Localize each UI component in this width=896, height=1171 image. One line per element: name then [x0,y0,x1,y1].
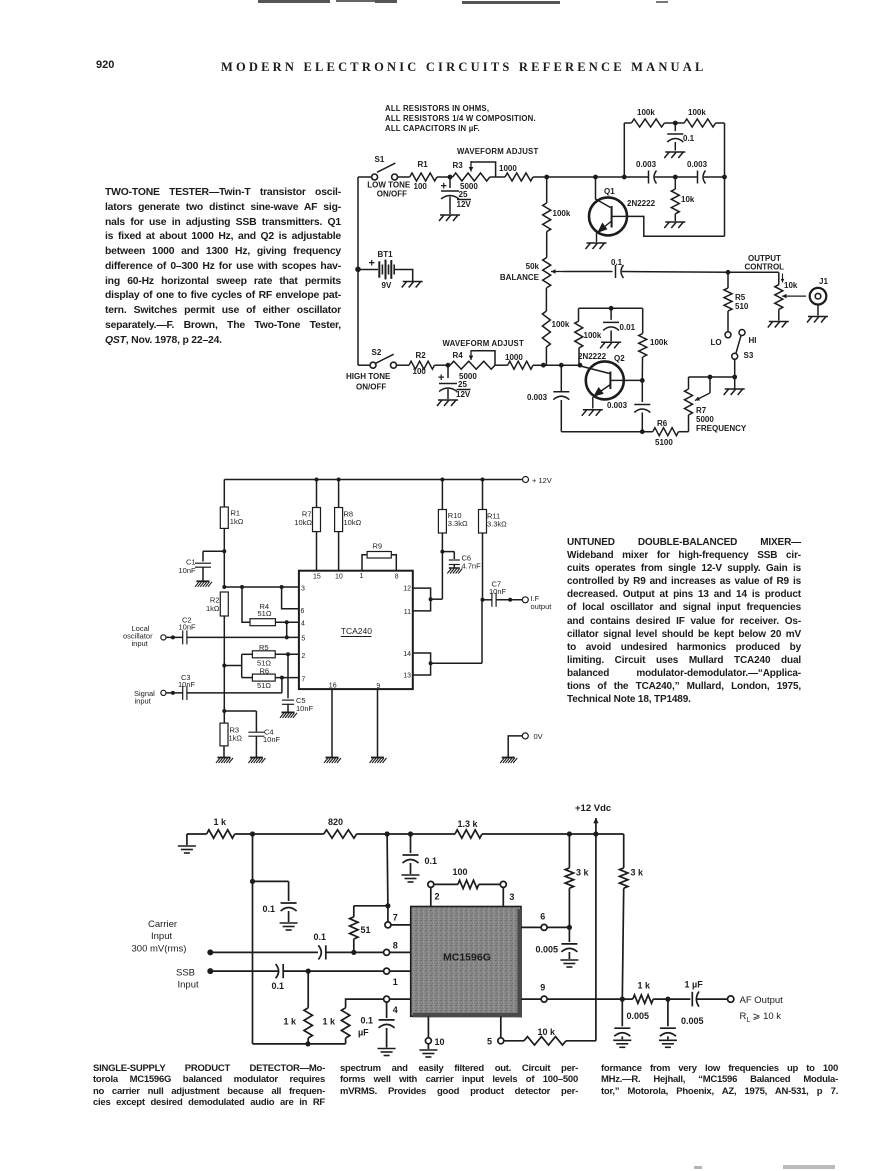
svg-text:0.1: 0.1 [611,258,623,267]
potentiometer R4 5000 WAVEFORM ADJUST [443,339,524,381]
svg-text:25: 25 [458,380,467,389]
node supply/decouple [250,831,255,836]
wire balance wiper to output bus [563,271,613,273]
resistor 1.3 k [455,819,482,838]
caption column 1: single-supply product detector [93,1063,325,1108]
potentiometer R7 5000 FREQUENCY [685,377,747,433]
resistor R4 51ohm [250,602,275,626]
svg-text:R5: R5 [735,293,746,302]
svg-text:100k: 100k [553,209,571,218]
svg-text:10k: 10k [784,281,798,290]
running head title [221,60,713,75]
ground below pin16 [324,758,341,764]
svg-text:11: 11 [404,609,411,616]
ground below 0V [500,758,517,764]
svg-text:0.1: 0.1 [272,981,285,991]
svg-text:4: 4 [301,620,305,627]
svg-text:R2: R2 [416,351,427,360]
capacitor 0.003 (twin-T left series) [636,160,657,184]
svg-text:820: 820 [328,817,343,827]
node Q2 bias junction [541,363,546,368]
svg-text:8: 8 [393,940,398,950]
node R5R6 branch [222,664,226,668]
svg-text:2N2222: 2N2222 [578,352,607,361]
node C7 junction [481,598,485,602]
transistor Q1 2N2222 [589,187,656,242]
wire long left bus [252,881,254,1044]
svg-text:10: 10 [435,1037,445,1047]
node twin-T top middle [664,121,684,126]
svg-text:+: + [369,258,375,270]
svg-text:14: 14 [403,651,411,658]
wire Q2 base [578,363,610,374]
wire R5R6 branch [224,654,252,677]
wire R4 to 1000 resistor [495,364,508,366]
svg-text:5: 5 [301,635,305,642]
node battery tap [355,267,361,273]
node pin7 junction [275,676,299,680]
resistor 100k (twin-T right) [684,108,724,127]
svg-text:TCA240: TCA240 [341,626,372,636]
wire supply to pin7 node [386,834,389,906]
wire C4 branch [224,711,256,732]
resistor 100k (Q2 twin-T left) [575,308,602,365]
svg-text:ALL CAPACITORS IN µF.: ALL CAPACITORS IN µF. [385,124,480,133]
ground below R3 [216,758,233,764]
ground below 0.01 cap [600,342,621,348]
IC U2 MC1596G [411,907,522,1018]
svg-text:1: 1 [393,977,398,987]
terminal 0V [508,732,542,757]
wire cap to pin8 [327,951,384,953]
ground below Q1 emitter [586,243,607,249]
terminal carrier input [132,919,214,955]
svg-text:10nF: 10nF [489,587,507,596]
svg-text:0.003: 0.003 [607,401,628,410]
node pin6/3k [567,925,572,930]
ground below J1 [807,305,828,323]
svg-text:13: 13 [403,672,411,679]
node R4/pin4 [275,620,299,624]
capacitor C4 10nF [248,728,280,758]
svg-text:16: 16 [329,682,337,689]
svg-text:100k: 100k [552,320,570,329]
svg-text:R4: R4 [453,351,464,360]
svg-text:S2: S2 [372,348,382,357]
svg-text:100k: 100k [688,108,706,117]
wire Q2 bottom row [561,431,653,433]
node S3 junction [732,375,737,380]
capacitor C6 4.7nF [442,552,481,571]
svg-text:µF: µF [358,1028,369,1038]
capacitor 0.1 (supply decoupling) [403,834,438,874]
node 3k left [567,831,572,836]
svg-text:J1: J1 [819,277,828,286]
wire C7 to IF output [496,598,522,602]
pin 9 [521,983,633,1003]
resistor 1 k (number1) [284,971,313,1044]
svg-text:6: 6 [301,608,305,615]
resistor 1000 (Q1 row) [499,164,533,181]
svg-text:100: 100 [414,182,428,191]
svg-text:51: 51 [361,925,371,935]
svg-text:10nF: 10nF [296,704,314,713]
capacitor C1 10nF [179,551,225,581]
svg-text:4.7nF: 4.7nF [462,562,482,571]
resistor R7 10k [294,478,320,571]
ground below pin6 cap [560,960,578,967]
wire pins 12-11 bracket [413,588,443,611]
resistor R5 510 [724,272,749,332]
svg-text:10kΩ: 10kΩ [344,518,362,527]
svg-text:0.003: 0.003 [687,160,708,169]
svg-text:AF Output: AF Output [740,995,784,1006]
resistor R11 3.3k [479,478,508,600]
potentiometer R3 5000 WAVEFORM ADJUST [453,147,539,191]
svg-text:4: 4 [393,1005,398,1015]
wire 1000 to twin-T row [533,176,648,178]
svg-text:5: 5 [487,1037,492,1047]
node C4 branch [222,709,226,713]
svg-text:S1: S1 [375,155,385,164]
terminal AF output [728,995,784,1024]
wire left supply bus [357,177,359,365]
svg-text:12: 12 [403,585,411,592]
caption: two-tone tester [105,186,341,348]
resistor 1 k (top left) [207,817,235,838]
svg-text:ALL RESISTORS 1/4 W COMPOSITIO: ALL RESISTORS 1/4 W COMPOSITION. [385,114,536,123]
wire +12V supply rail [224,479,522,481]
node R4 branch [240,585,244,589]
svg-text:output: output [531,602,553,611]
capacitor 0.1 (carrier coupling) [314,932,327,960]
pin 2 [428,881,440,906]
node C1 junction [222,549,226,553]
node junction R1/R3/C [448,175,453,180]
wire +12 bus down [595,834,597,1041]
pin 7 [385,906,411,928]
wire S2 to R2 [396,364,409,366]
svg-text:25: 25 [459,190,468,199]
wire 1k to 820 [235,833,324,835]
svg-text:5100: 5100 [655,438,673,447]
ground below output control pot [768,322,789,328]
terminal +12V [523,476,552,485]
node 1k bottoms [305,1041,310,1046]
svg-text:1kΩ: 1kΩ [229,734,243,743]
svg-text:ALL RESISTORS IN OHMS,: ALL RESISTORS IN OHMS, [385,104,489,113]
ground below twin-T 10k [664,222,685,228]
svg-text:1 µF: 1 µF [685,980,704,990]
wire 1000 to Q2 base row [533,364,580,366]
svg-text:3: 3 [301,586,305,593]
capacitor 25uF 12V (Q2 side) [438,365,471,399]
node junction 100k balance chain [544,175,549,180]
resistor 1 k (AF output) [633,981,691,1004]
svg-text:100: 100 [413,367,427,376]
svg-text:100k: 100k [584,331,602,340]
svg-text:100k: 100k [637,108,655,117]
wire 51 top to pin7 node [354,905,388,907]
svg-text:1 k: 1 k [214,817,228,827]
capacitor 0.1 (output coupling) [611,258,624,278]
schematic notes [385,104,536,133]
resistor 100k (upper bias to balance) [543,177,571,258]
node twin-T left vertical [622,175,627,180]
svg-text:0.003: 0.003 [527,393,548,402]
wire R3 to 1000 resistor [490,176,505,178]
resistor R1 100 [410,160,437,191]
wire R1 to node [437,176,453,178]
svg-text:R7: R7 [696,406,707,415]
wire 1.3k to +12 corner [482,833,624,835]
svg-text:0.005: 0.005 [681,1016,704,1026]
switch S3 LO/HI [732,330,757,361]
svg-text:8: 8 [395,573,399,580]
wire pin16 ground [331,689,333,757]
wire Q1 collector loop [627,216,725,236]
node long bus [250,879,255,884]
capacitor 0.1 (twin-T middle) [667,123,694,151]
svg-text:7: 7 [301,676,305,683]
node pin6 branch [280,585,284,589]
wire Q2 twin-T top [579,307,643,309]
wire SSB row [210,970,278,972]
svg-text:5000: 5000 [460,182,478,191]
ground below Q2 emitter [582,410,603,416]
svg-text:6: 6 [540,912,545,922]
terminal signal input [134,689,166,706]
svg-text:10nF: 10nF [263,735,281,744]
resistor 51 [350,906,371,953]
pin 3 [500,881,514,906]
svg-text:+12 Vdc: +12 Vdc [575,803,611,814]
svg-text:10kΩ: 10kΩ [294,518,312,527]
svg-text:0.1: 0.1 [263,904,276,914]
caption: untuned double-balanced mixer [567,536,801,706]
svg-text:R3: R3 [453,161,464,170]
svg-text:3 k: 3 k [631,868,645,878]
svg-text:300 mV(rms): 300 mV(rms) [132,944,187,955]
svg-text:input: input [135,696,152,705]
ground below twin-T 0.1 cap [664,152,685,158]
resistor R10 3.3k [438,478,468,600]
ground below C6 [447,568,462,574]
svg-text:0.1: 0.1 [314,932,327,942]
svg-text:12V: 12V [456,390,471,399]
node Q2 collector junction [640,378,645,383]
svg-text:9: 9 [376,683,380,690]
node R7 wiper tap [708,375,713,380]
capacitor C7 10nF [483,580,507,607]
svg-text:S3: S3 [744,351,754,360]
page number 920 [96,59,114,71]
resistor R6 51ohm [252,666,275,690]
resistor 10k (twin-T shunt) [671,177,695,221]
power +12 Vdc arrow [575,803,611,834]
resistor R2 1k [206,592,228,723]
terminal SSB input [176,968,213,991]
wire pin4 to pin5 row [286,622,288,637]
svg-text:2: 2 [301,653,305,660]
wire pin3 node row [224,586,299,588]
terminal LO [711,332,732,347]
svg-text:0.1: 0.1 [425,856,438,866]
wire to 1k [187,833,207,835]
capacitor 0.005 (filter 2) [660,999,704,1039]
svg-text:BALANCE: BALANCE [500,273,540,282]
ground below pin10 [419,1050,437,1057]
resistor 100k (twin-T left) [624,108,664,127]
svg-text:51Ω: 51Ω [258,609,272,618]
resistor 100 (pins 2-3) [434,867,501,889]
ground below C1 [195,581,212,587]
caption column 3 [601,1063,838,1097]
wire twin-T right vertical [724,123,726,236]
node output bus / R5 [726,270,731,275]
svg-text:WAVEFORM ADJUST: WAVEFORM ADJUST [443,339,524,348]
svg-text:5000: 5000 [696,415,714,424]
svg-text:0.01: 0.01 [620,323,636,332]
resistor R9 [362,542,396,571]
svg-text:HI: HI [749,336,757,345]
svg-text:10nF: 10nF [178,680,196,689]
ground below pin9 [370,758,387,764]
capacitor C2 10nF [166,616,196,645]
node 0.1 decouple [408,831,413,836]
svg-text:R6: R6 [260,666,270,675]
svg-text:L: L [747,1017,751,1024]
node pin9/3k [620,997,625,1002]
ground below C5 [280,712,297,718]
pin 5 [487,1016,504,1046]
svg-text:1000: 1000 [499,164,517,173]
capacitor 0.005 (pin6) [535,927,577,959]
wire S3 to junction [734,359,736,377]
switch S1 LOW TONE ON/OFF [358,155,411,199]
node pin3/R2 [222,585,226,589]
ground below battery [402,282,423,288]
capacitor 1 uF [685,980,704,1007]
ground below filter1 [613,1040,631,1047]
ground below supply 0.1 [402,875,420,882]
svg-text:Q1: Q1 [604,187,615,196]
resistor R5 51ohm [252,643,275,667]
capacitor C5 10nF [282,654,314,713]
node Q2 twin-T middle [609,306,614,311]
node pin5/pin4 link [285,635,289,639]
svg-text:R9: R9 [373,542,383,551]
wire signal row to pin7 [187,678,282,693]
capacitor 0.003 (Q2 right series) [607,380,650,431]
wire Q2 collector [624,379,643,381]
svg-text:FREQUENCY: FREQUENCY [696,424,747,433]
svg-text:HIGH TONE: HIGH TONE [346,372,391,381]
ground below filter2 [659,1040,677,1047]
wire pin6 branch [282,587,299,609]
svg-text:100: 100 [453,867,468,877]
terminal local oscillator input [123,624,166,648]
pin 1 [384,968,411,987]
ground below C4 [248,758,265,764]
wire pins 14-13 bracket [413,600,482,675]
svg-text:1: 1 [360,573,364,580]
svg-text:BT1: BT1 [378,250,394,259]
capacitor 0.1 uF (pin4 bypass) [358,1002,395,1047]
svg-text:1.3 k: 1.3 k [458,819,479,829]
wire R4 branch [242,587,250,622]
capacitor 0.003 (Q2 left series) [527,365,569,432]
node junction R2/R4/C [446,363,451,368]
transistor Q2 2N2222 [578,352,625,409]
wire S1 to R1 [398,176,410,178]
page edge scan marks top [258,0,330,3]
capacitor 25uF 12V (Q1 side) [441,177,472,214]
svg-text:Q2: Q2 [614,354,625,363]
terminal IF output [522,594,552,611]
wire Q1 base [596,177,611,208]
resistor R8 10k [335,478,362,571]
node twin-T 10k tap [655,175,698,180]
svg-text:0V: 0V [534,732,543,741]
svg-text:0.005: 0.005 [627,1011,650,1021]
capacitor 0.003 (twin-T right series) [687,160,725,184]
svg-text:ON/OFF: ON/OFF [356,383,386,392]
wire battery to ground [395,270,413,282]
pin 10 [425,1016,444,1049]
node Q2 bottom junction [640,429,645,434]
svg-text:0.005: 0.005 [535,945,558,955]
wire output bus [622,271,728,274]
capacitor 0.1 (carrier bypass) [253,834,297,922]
svg-text:⩾ 10 k: ⩾ 10 k [753,1011,782,1022]
capacitor 0.01 (Q2 twin-T middle) [603,308,636,341]
resistor R3 1k [220,723,242,757]
potentiometer 50k BALANCE [500,258,563,288]
node 51 bottom [351,950,356,955]
svg-text:9V: 9V [382,281,392,290]
wire bottom bus [253,1043,346,1045]
svg-text:LOW TONE: LOW TONE [367,181,411,190]
resistor 100k (Q2 twin-T right) [639,308,669,380]
svg-text:R5: R5 [259,643,269,652]
resistor 1 k (number2) [323,999,384,1044]
caption column 2 [340,1063,578,1097]
wire junction to R7 [689,376,735,378]
svg-text:9: 9 [540,983,545,993]
resistor 820 [324,817,357,838]
svg-text:Input: Input [151,931,172,942]
svg-text:10k: 10k [681,195,695,204]
svg-text:1 k: 1 k [284,1017,298,1027]
ground below S3 [724,377,745,395]
svg-text:CONTROL: CONTROL [745,263,785,272]
svg-text:12V: 12V [457,200,472,209]
connector J1 [810,277,829,305]
svg-text:3 k: 3 k [576,868,590,878]
ground below carrier bypass [280,923,298,930]
node C6 junction [440,550,444,554]
resistor R6 5100 [653,419,689,447]
svg-text:+ 12V: + 12V [532,476,552,485]
node pin7 supply [385,831,390,836]
svg-text:3: 3 [509,892,514,902]
resistor 100k (lower bias to Q2 row) [542,288,569,366]
svg-text:0.003: 0.003 [636,160,657,169]
svg-text:1000: 1000 [505,353,523,362]
capacitor 0.005 (filter 1) [614,999,649,1039]
pin 8 [384,940,411,955]
